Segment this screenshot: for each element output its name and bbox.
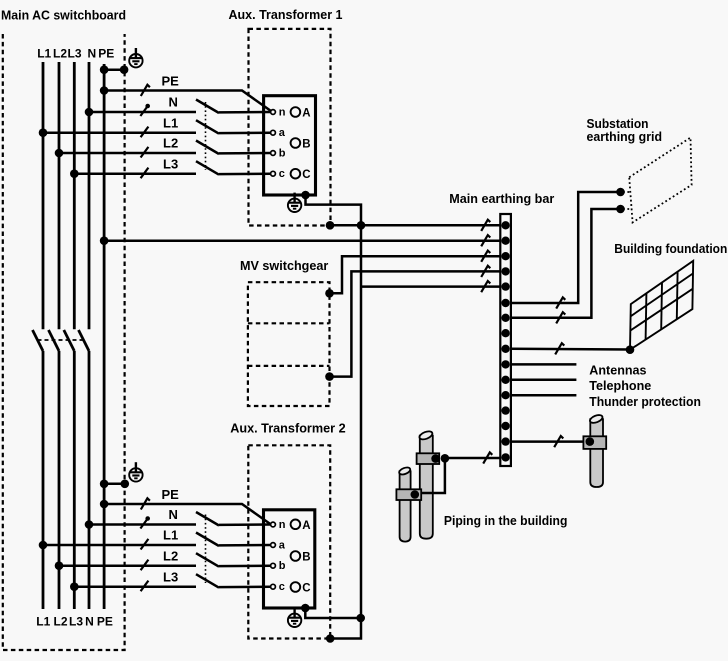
transformer U2 box	[264, 510, 315, 608]
wire 5: riser branch to bar	[361, 285, 500, 288]
wire piping to bar	[415, 458, 501, 493]
T2 earth wire	[305, 608, 360, 618]
wire 2: switchboard PE to bar	[104, 239, 500, 242]
bus L1	[42, 62, 45, 329]
winding B2	[291, 551, 301, 561]
svg-text:B: B	[302, 552, 310, 564]
svg-text:N: N	[169, 95, 178, 110]
bar dots	[501, 221, 509, 461]
bus labels top	[37, 47, 114, 61]
winding B	[291, 138, 301, 148]
switch linkage T1	[205, 102, 207, 170]
svg-text:b: b	[279, 147, 286, 159]
transformer U1 box	[264, 96, 316, 195]
svg-text:Main earthing bar: Main earthing bar	[449, 191, 554, 206]
svg-text:n: n	[279, 106, 286, 118]
svg-text:earthing grid: earthing grid	[587, 129, 663, 144]
svg-text:Piping in the building: Piping in the building	[444, 513, 568, 528]
svg-text:a: a	[279, 127, 286, 139]
T1 earth wire	[306, 195, 362, 225]
svg-text:Aux. Transformer 2: Aux. Transformer 2	[230, 421, 346, 436]
clamp on small pipe	[396, 489, 421, 500]
svg-text:PE: PE	[162, 73, 180, 88]
wire bar to foundation	[511, 348, 630, 351]
svg-text:L1: L1	[163, 528, 178, 543]
svg-text:Building foundation: Building foundation	[614, 241, 727, 256]
pipe right	[589, 414, 604, 487]
wire N row T2 + switch	[89, 523, 196, 526]
svg-text:a: a	[279, 539, 286, 551]
clamp on right pipe	[583, 436, 606, 449]
svg-text:C: C	[302, 583, 310, 595]
switch linkage T2	[205, 515, 207, 584]
terminal c	[271, 171, 276, 176]
wire 1: T1 enclosure + riser to bar	[330, 224, 500, 227]
svg-text:N: N	[87, 47, 96, 61]
breaker L1	[33, 330, 44, 351]
wire L1 row T2 + switch	[43, 544, 196, 547]
svg-text:L2: L2	[163, 548, 178, 563]
terminal a2	[271, 543, 276, 548]
T2 dashed enclosure	[248, 445, 330, 638]
svg-text:L2: L2	[53, 615, 67, 629]
terminal b2	[271, 563, 276, 568]
T1 dashed enclosure	[249, 29, 331, 226]
T1 earth symbol	[288, 193, 301, 212]
svg-text:L3: L3	[69, 615, 83, 629]
terminal b	[271, 151, 276, 156]
substation earthing grid (dotted)	[629, 138, 691, 223]
svg-text:c: c	[279, 581, 285, 593]
wire N row T1 + switch	[89, 111, 196, 114]
svg-text:n: n	[279, 519, 286, 531]
svg-text:Telephone: Telephone	[589, 378, 651, 393]
pipe big left	[418, 430, 433, 539]
breaker N	[79, 330, 90, 351]
switchboard dashed enclosure	[3, 34, 125, 650]
svg-text:MV switchgear: MV switchgear	[240, 258, 328, 273]
MV divider 1	[248, 322, 330, 324]
wire bar to grid 2	[511, 209, 621, 318]
svg-text:PE: PE	[98, 47, 114, 61]
winding A	[291, 107, 301, 117]
svg-text:Aux. Transformer 1: Aux. Transformer 1	[229, 7, 343, 22]
wire bar to grid 1	[511, 192, 621, 303]
svg-text:Antennas: Antennas	[589, 363, 646, 378]
wire riser to T2	[330, 225, 361, 638]
bus labels bottom	[36, 615, 113, 629]
main earthing bar	[500, 214, 511, 466]
winding C2	[291, 582, 301, 592]
terminal n2	[271, 522, 276, 527]
wire L2 row T1 + switch	[59, 152, 196, 155]
bus L2	[58, 62, 61, 329]
PE stub top + earth	[104, 68, 124, 71]
wire bar to telephone	[511, 379, 577, 382]
svg-text:PE: PE	[162, 487, 180, 502]
PE stub T2 + earth	[104, 483, 125, 486]
svg-text:L1: L1	[37, 47, 51, 61]
wire L3 row T2 + switch	[74, 585, 196, 588]
winding A2	[291, 520, 301, 530]
terminal c2	[271, 584, 276, 589]
svg-text:Main AC switchboard: Main AC switchboard	[1, 8, 126, 23]
breaker L3	[64, 330, 75, 351]
winding C	[291, 169, 301, 179]
svg-text:Thunder protection: Thunder protection	[589, 394, 701, 409]
wire PE row T2	[104, 504, 271, 524]
wire PE row T1	[104, 91, 271, 111]
svg-text:PE: PE	[97, 615, 113, 629]
svg-text:L2: L2	[53, 47, 67, 61]
svg-text:A: A	[302, 520, 310, 532]
bus N	[88, 62, 91, 329]
building foundation grid	[630, 261, 693, 350]
svg-text:b: b	[279, 560, 286, 572]
wire MV earth 1	[330, 256, 501, 293]
wire L2 row T2 + switch	[59, 564, 196, 567]
bus PE	[103, 64, 106, 609]
svg-text:A: A	[302, 108, 310, 120]
clamp on big pipe	[417, 453, 440, 464]
bus L3	[73, 62, 76, 329]
svg-text:c: c	[279, 168, 285, 180]
wire bar to antennas	[511, 363, 577, 366]
wire bar to thunder protection	[511, 394, 577, 397]
svg-text:N: N	[85, 615, 94, 629]
svg-text:L2: L2	[163, 136, 178, 151]
MV switchgear dashed box	[248, 282, 330, 406]
wire L1 row T1 + switch	[43, 131, 196, 134]
MV divider 2	[248, 365, 330, 367]
pipe small left	[398, 466, 411, 542]
svg-text:L3: L3	[67, 47, 81, 61]
svg-text:N: N	[169, 507, 178, 522]
T2 earth symbol	[288, 608, 301, 627]
wire bar to pipe clamp	[511, 440, 590, 443]
breaker L2	[49, 330, 60, 351]
svg-text:L1: L1	[163, 115, 178, 130]
wire MV earth 2	[330, 271, 501, 376]
svg-text:L3: L3	[163, 569, 178, 584]
svg-text:B: B	[302, 139, 310, 151]
terminal n	[271, 110, 276, 115]
svg-text:L3: L3	[163, 156, 178, 171]
svg-text:L1: L1	[36, 615, 50, 629]
wire L3 row T1 + switch	[74, 172, 196, 175]
breaker linkage	[38, 339, 85, 341]
terminal a	[271, 130, 276, 135]
svg-text:C: C	[302, 169, 310, 181]
